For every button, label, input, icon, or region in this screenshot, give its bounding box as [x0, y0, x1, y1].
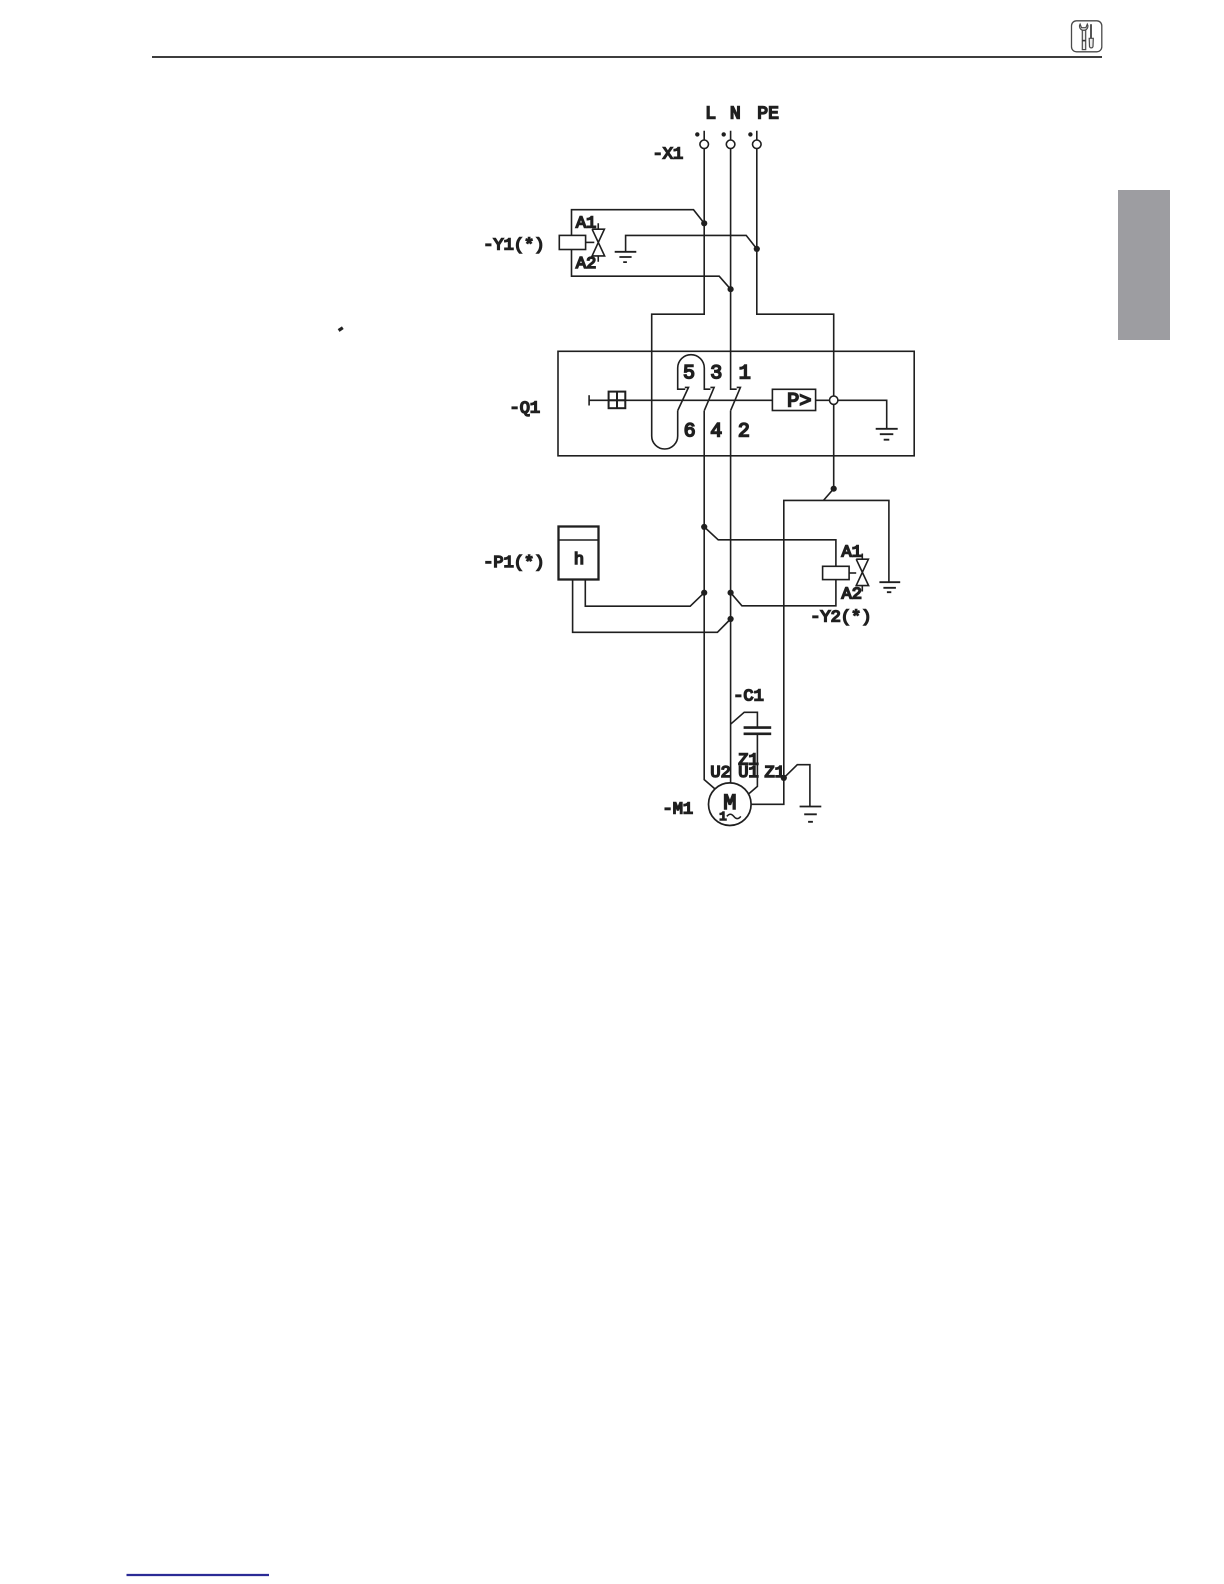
wire P1 left stub to N — [573, 580, 731, 633]
svg-text:-Y1(*): -Y1(*) — [483, 236, 544, 255]
junction PE/motor — [781, 775, 787, 781]
svg-text:A1: A1 — [576, 215, 596, 234]
tilde (ac) — [727, 814, 741, 818]
svg-text:N: N — [730, 104, 741, 124]
ground Q1 internal — [876, 429, 898, 440]
svg-text:U2: U2 — [710, 764, 730, 783]
wire PE rail to motor and ground — [784, 500, 889, 778]
svg-text:-Q1: -Q1 — [510, 400, 541, 419]
wire N vertical (from X1 to Q1 pole 1) — [731, 131, 737, 389]
svg-text:1: 1 — [719, 810, 726, 824]
wire Y1 ground to PE — [626, 235, 757, 251]
wire pole4 output (L) down to motor — [704, 411, 717, 791]
marker dot L — [695, 132, 699, 136]
Q1 pole5 blade — [678, 387, 689, 410]
valve body Y1 — [592, 229, 605, 256]
wire PE branch to motor ground — [784, 765, 810, 807]
wire C1 to motor U1 — [746, 734, 758, 797]
svg-text:-P1(*): -P1(*) — [483, 554, 544, 573]
Q1 pole5/3 arch with contact feet — [678, 355, 711, 389]
header rule — [152, 56, 1102, 58]
ground motor — [800, 807, 822, 822]
wire PE branch below Q1 — [824, 489, 834, 501]
terminal X1-L circle — [700, 140, 709, 149]
svg-text:A2: A2 — [842, 585, 862, 604]
Q1 pole5 U-loop — [652, 411, 678, 449]
Q1 pressure trip box P> — [772, 389, 815, 410]
terminal X1-N circle — [726, 140, 735, 149]
wire pole2 output (N) down to motor — [730, 411, 732, 786]
Q1 trip bar — [589, 400, 887, 429]
wire Y2 coil to valve — [849, 572, 856, 574]
solenoid valve Y1 coil — [559, 235, 585, 249]
junction PE below Q1 — [831, 486, 837, 492]
svg-text:-X1: -X1 — [653, 146, 684, 165]
svg-text:A1: A1 — [842, 544, 862, 563]
Q1 pole1 blade — [731, 387, 741, 410]
P1 divider — [559, 539, 599, 541]
wire Y2 A1 branch — [704, 527, 836, 566]
svg-text:A2: A2 — [576, 255, 596, 274]
valve stubs Y2 — [861, 554, 863, 592]
valve body Y2 — [856, 559, 868, 585]
wire Y1 A2 branch — [572, 250, 731, 290]
wire Y2 A2 branch — [731, 580, 836, 606]
svg-text:h: h — [574, 551, 584, 570]
ground Y1 — [615, 252, 637, 262]
junction L/Y1 — [701, 220, 707, 226]
wire P1 right stub to L — [585, 580, 704, 607]
svg-text:1: 1 — [739, 362, 751, 385]
junction L/P1 — [701, 590, 707, 596]
marker dot N — [722, 132, 726, 136]
terminal X1-PE circle — [753, 140, 762, 149]
ground Y2 side — [879, 582, 900, 592]
breaker Q1 box — [558, 351, 914, 456]
svg-text:PE: PE — [757, 104, 779, 124]
valve stubs Y1 — [597, 223, 599, 262]
svg-text:4: 4 — [710, 420, 722, 443]
Q1 test button square — [609, 392, 626, 409]
svg-text:L: L — [705, 104, 716, 124]
solenoid valve Y2 coil — [823, 566, 850, 579]
capacitor C1 plates — [744, 728, 772, 734]
Q1 test button tick — [588, 395, 590, 405]
wire L vertical (from X1 into Q1 pole 5 loop) — [652, 131, 705, 436]
Q1 PE terminal circle — [830, 396, 838, 404]
junction N/Y1 — [728, 286, 734, 292]
wire PE to motor Z1 — [748, 778, 784, 804]
wire Y1 coil to valve — [586, 241, 595, 243]
svg-text:6: 6 — [684, 420, 696, 443]
svg-text:-C1: -C1 — [733, 687, 764, 706]
svg-text:2: 2 — [738, 420, 750, 443]
junction N/Y2-A2 — [728, 590, 734, 596]
motor M1 circle — [709, 783, 752, 826]
junction L/Y2-A1 — [701, 524, 707, 530]
stray mark — [339, 328, 343, 331]
footer line (navy) — [127, 1574, 270, 1576]
junction N/P1 — [728, 616, 734, 622]
svg-text:3: 3 — [710, 362, 722, 385]
Q1 pole3 blade — [704, 387, 714, 410]
svg-text:5: 5 — [683, 362, 695, 385]
svg-text:-M1: -M1 — [663, 801, 694, 820]
svg-text:P>: P> — [787, 391, 812, 414]
capacitor C1 branch wire — [731, 712, 758, 727]
hour meter P1 box — [559, 527, 599, 580]
junction PE/Y1-ground — [754, 246, 760, 252]
svg-text:-Y2(*): -Y2(*) — [810, 608, 871, 627]
wire Y1 A1 branch — [572, 210, 705, 236]
marker dot PE — [748, 132, 752, 136]
wire PE vertical (from X1 through Q1 right side) — [757, 131, 834, 489]
tools icon top-right — [1072, 21, 1102, 52]
section thumb tab (gray) — [1118, 190, 1170, 340]
svg-text:U1: U1 — [738, 764, 758, 783]
